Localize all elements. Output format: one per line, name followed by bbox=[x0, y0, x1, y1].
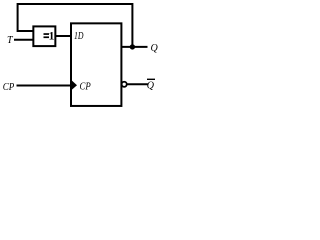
flip-flop U2 box bbox=[71, 23, 121, 106]
svg-text:1D: 1D bbox=[74, 31, 84, 42]
svg-text:Q: Q bbox=[147, 81, 155, 92]
label =1 equals bar top bbox=[44, 33, 50, 35]
wire feedback loop from node Q to XOR upper input bbox=[18, 4, 133, 46]
svg-text:CP: CP bbox=[3, 82, 15, 93]
wire XOR output to 1D input bbox=[56, 35, 71, 37]
junction dot at node Q bbox=[130, 44, 135, 49]
wire T input bbox=[14, 39, 34, 41]
wire Qbar output bbox=[127, 83, 148, 85]
svg-text:T: T bbox=[7, 35, 14, 46]
label Qbar overbar bbox=[147, 78, 155, 80]
clock dynamic-input triangle bbox=[72, 81, 77, 90]
svg-text:1: 1 bbox=[49, 31, 55, 43]
label =1 equals bar bottom bbox=[44, 36, 50, 38]
wire CP input bbox=[17, 85, 72, 87]
svg-text:CP: CP bbox=[80, 81, 91, 92]
inversion bubble on Qbar output bbox=[122, 82, 127, 87]
wire Q output bbox=[121, 46, 147, 48]
svg-text:Q: Q bbox=[151, 43, 159, 54]
xor gate U1 box bbox=[33, 26, 55, 46]
